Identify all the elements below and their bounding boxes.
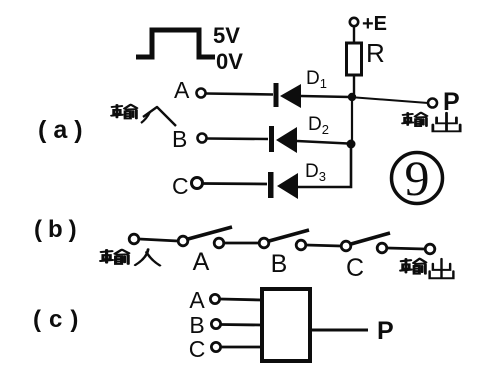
svg-text:D1: D1 (306, 68, 327, 91)
diode D1 (274, 83, 302, 108)
svg-text:A: A (174, 77, 190, 103)
svg-text:C: C (172, 173, 189, 199)
label (c) (33, 306, 86, 333)
wire node 1 to node 2 (351, 99, 353, 141)
terminal P (428, 99, 437, 108)
label B (block input) (189, 312, 204, 338)
label D2 (308, 114, 329, 137)
switch B (259, 230, 309, 250)
wire switch B to switch C (306, 245, 341, 246)
svg-text:0V: 0V (216, 49, 243, 74)
svg-text:C: C (346, 254, 364, 282)
label A (block input) (189, 287, 205, 313)
terminal B (block) (211, 319, 220, 328)
junction node 2 (347, 140, 356, 149)
resistor R (347, 43, 362, 75)
wire D3 to node 2 (corner) (298, 146, 351, 187)
terminal output row b (425, 244, 435, 254)
wire node 1 to output P (356, 98, 428, 104)
wire B to D2 (207, 137, 268, 140)
wire R to node 1 (353, 75, 355, 94)
label P (output a) (443, 88, 460, 116)
junction node 1 (348, 93, 356, 101)
label input (shu-ru) with pointer (112, 105, 176, 126)
terminal C (192, 178, 203, 189)
diode D2 (269, 126, 297, 153)
label 5V (213, 23, 240, 48)
label D1 (306, 68, 327, 91)
label D3 (305, 161, 326, 184)
label (a) (38, 116, 90, 144)
switch C (341, 233, 390, 253)
wire switch C to output (387, 248, 425, 249)
wire C to D3 (203, 182, 267, 185)
logic block U1 (262, 289, 310, 361)
svg-text:A: A (193, 248, 210, 276)
svg-text:(c): (c) (33, 306, 86, 333)
label (b) (34, 216, 83, 243)
svg-text:B: B (172, 126, 187, 152)
terminal input row b (129, 234, 139, 244)
wire block to P (310, 329, 368, 332)
label A (input a) (174, 77, 190, 103)
terminal A (197, 89, 206, 98)
label +E (362, 13, 387, 35)
svg-text:(a): (a) (38, 116, 90, 144)
svg-text:+E: +E (362, 13, 387, 35)
diode D3 (268, 172, 298, 199)
pulse waveform (136, 30, 215, 57)
svg-text:9: 9 (405, 150, 430, 206)
label input (shu-ru) row b (101, 249, 160, 265)
svg-text:P: P (443, 88, 460, 116)
wire A to block (220, 299, 262, 300)
label B (switch) (271, 250, 288, 278)
label A (switch) (193, 248, 210, 276)
wire input to switch A (139, 239, 178, 241)
wire C to block (221, 346, 262, 349)
svg-text:B: B (189, 312, 204, 338)
label C (input c) (172, 173, 189, 199)
label output (shu-chu) row b (401, 259, 454, 278)
switch A (178, 227, 232, 248)
wire switch A to switch B (224, 242, 259, 245)
svg-text:R: R (366, 38, 385, 68)
terminal A (block) (210, 294, 219, 303)
label C (switch) (346, 254, 364, 282)
svg-text:C: C (189, 336, 206, 362)
terminal +E (350, 18, 358, 26)
wire B to block (221, 323, 262, 326)
svg-text:B: B (271, 250, 288, 278)
label B (input b) (172, 126, 187, 152)
label P (block output) (377, 317, 394, 345)
label 0V (216, 49, 243, 74)
label output (shu-chu) row a (403, 113, 461, 132)
svg-text:A: A (189, 287, 205, 313)
svg-text:5V: 5V (213, 23, 240, 48)
figure number 9 (392, 150, 443, 206)
terminal B (198, 134, 207, 143)
wire A to D1 (206, 94, 273, 95)
wire +E to R (353, 26, 355, 43)
terminal C (block) (211, 342, 220, 351)
svg-text:(b): (b) (34, 216, 83, 243)
label R (366, 38, 385, 68)
wire D1 to node 1 (301, 96, 350, 97)
label C (block input) (189, 336, 206, 362)
svg-text:D2: D2 (308, 114, 329, 137)
svg-text:D3: D3 (305, 161, 326, 184)
svg-text:P: P (377, 317, 394, 345)
wire D2 to node 2 (297, 141, 348, 144)
